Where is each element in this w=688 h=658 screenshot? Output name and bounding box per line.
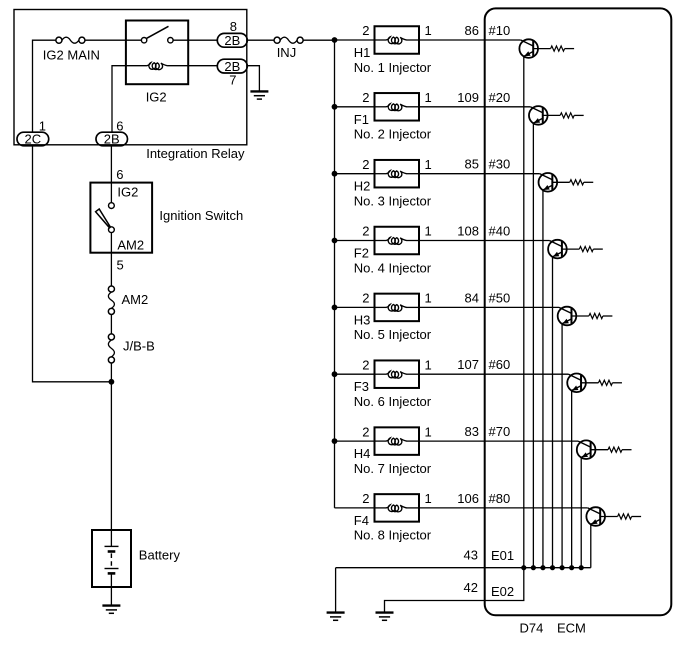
wire E01 to ground [335, 568, 337, 613]
transistor Q2 [529, 106, 548, 125]
resistor (base Q7) [608, 447, 622, 452]
wire through injector H4 [375, 440, 387, 442]
svg-text:108: 108 [457, 224, 479, 239]
svg-text:D74: D74 [520, 621, 544, 636]
svg-text:107: 107 [457, 357, 479, 372]
wire resistor stub Q7 [622, 449, 632, 451]
svg-text:2B: 2B [104, 132, 120, 147]
svg-text:F3: F3 [354, 379, 369, 394]
injector H2 coil [386, 171, 407, 178]
injector H4 box [375, 427, 420, 455]
fuse AM2 [108, 286, 114, 315]
junction E01 emitter 4 [550, 565, 555, 570]
svg-text:109: 109 [457, 90, 479, 105]
svg-text:No. 1 Injector: No. 1 Injector [354, 60, 432, 75]
transistor Q5 [558, 307, 577, 326]
junction bus row 3 [332, 171, 338, 177]
svg-text:No. 4 Injector: No. 4 Injector [354, 260, 432, 275]
svg-text:Integration Relay: Integration Relay [146, 146, 245, 161]
wire bus to injector H3 [335, 306, 375, 308]
svg-text:H1: H1 [354, 45, 371, 60]
svg-text:J/B-B: J/B-B [123, 338, 155, 353]
svg-text:No. 3 Injector: No. 3 Injector [354, 194, 432, 209]
wire resistor stub Q2 [574, 114, 584, 116]
fuse J/B-B [108, 334, 114, 363]
injector H2 box [375, 160, 420, 188]
svg-text:1: 1 [425, 90, 432, 105]
svg-text:42: 42 [464, 580, 478, 595]
svg-text:#20: #20 [489, 90, 511, 105]
resistor (base Q1) [551, 46, 565, 51]
svg-text:8: 8 [230, 19, 237, 34]
svg-text:INJ: INJ [277, 45, 297, 60]
svg-text:1: 1 [425, 291, 432, 306]
svg-text:84: 84 [465, 290, 479, 305]
junction E01 emitter 6 [569, 565, 574, 570]
junction bus row 7 [332, 438, 338, 444]
wire transistor Q3 base to resistor [552, 181, 569, 183]
resistor (base Q2) [560, 113, 574, 118]
injector F4 box [375, 494, 420, 522]
wire fuse AM2 to fuse J/B-B [110, 314, 112, 334]
injector H4 coil [386, 438, 407, 445]
injector F4 coil [386, 505, 407, 512]
svg-text:No. 5 Injector: No. 5 Injector [354, 327, 432, 342]
wire injector H4 coil to pin 1 [406, 440, 419, 442]
junction battery node [109, 379, 115, 385]
wire injector F2 coil to pin 1 [406, 240, 419, 242]
svg-text:1: 1 [425, 491, 432, 506]
wire emitter Q1 to E01 bus [523, 56, 525, 568]
svg-text:H4: H4 [354, 446, 371, 461]
svg-text:1: 1 [425, 357, 432, 372]
svg-text:E02: E02 [491, 584, 514, 599]
resistor (base Q4) [579, 247, 593, 252]
wire fuse to relay contact [85, 39, 142, 41]
svg-text:1: 1 [425, 424, 432, 439]
svg-text:2: 2 [362, 157, 369, 172]
wire injector H3 coil to pin 1 [406, 306, 419, 308]
resistor (base Q5) [589, 313, 603, 318]
ground (battery) [102, 606, 120, 614]
wire 2C to fuse IG2 MAIN [33, 40, 56, 132]
wire emitter Q8 to E01 bus [590, 524, 592, 568]
wire transistor Q5 base to resistor [571, 315, 588, 317]
injector H1 box [375, 26, 420, 54]
wire fuse J/B-B to junction [110, 363, 112, 382]
wire injector H2 coil to pin 1 [406, 173, 419, 175]
svg-text:5: 5 [117, 258, 124, 273]
junction E01 emitter 2 [531, 565, 536, 570]
svg-text:AM2: AM2 [117, 238, 144, 253]
wire emitter Q5 to E01 bus [561, 324, 563, 568]
svg-text:6: 6 [116, 167, 123, 182]
svg-text:1: 1 [425, 157, 432, 172]
wire through injector H1 [375, 39, 387, 41]
connector 2C pin 1 [17, 132, 49, 147]
svg-text:106: 106 [457, 491, 479, 506]
wire coil to connector 2B pin 7 [167, 65, 217, 67]
svg-text:F2: F2 [354, 246, 369, 261]
wire transistor Q1 base to resistor [533, 48, 550, 50]
injector H3 coil [386, 304, 407, 311]
ground (E02) [376, 613, 394, 621]
fuse IG2 MAIN [56, 37, 85, 43]
wire E02 to E01 bus [385, 568, 524, 613]
wire bus to injector H2 [335, 173, 375, 175]
transistor Q8 [586, 507, 605, 526]
integration relay box [14, 10, 247, 145]
wire 2B pin6 down to ignition switch [110, 146, 112, 203]
wire transistor Q4 base to resistor [562, 248, 579, 250]
wire fuse INJ to injector bus [303, 39, 335, 41]
transistor Q1 [519, 39, 538, 58]
fuse INJ [274, 37, 303, 43]
svg-text:2: 2 [362, 224, 369, 239]
injector F2 box [375, 227, 420, 255]
svg-text:Battery: Battery [139, 548, 181, 563]
injector F2 coil [386, 237, 407, 244]
wire 2B pin7 to ground [247, 66, 259, 92]
battery [92, 530, 131, 587]
svg-text:1: 1 [425, 224, 432, 239]
svg-text:H3: H3 [354, 312, 371, 327]
svg-text:No. 8 Injector: No. 8 Injector [354, 528, 432, 543]
wire through injector F1 [375, 106, 387, 108]
svg-text:F4: F4 [354, 513, 369, 528]
wire injector F2 to ECM transistor [419, 240, 549, 242]
svg-text:2C: 2C [25, 132, 42, 147]
wire bus to injector F4 [335, 507, 375, 509]
injector F1 coil [386, 104, 407, 111]
junction E01 emitter 3 [540, 565, 545, 570]
wire injector H1 coil to pin 1 [406, 39, 419, 41]
ground (relay coil) [250, 91, 268, 99]
wire transistor Q2 base to resistor [543, 114, 560, 116]
svg-text:F1: F1 [354, 112, 369, 127]
injector F3 box [375, 360, 420, 388]
junction bus row 1 [332, 37, 338, 43]
connector 2B pin 6 [96, 132, 128, 147]
junction E01 emitter 1 [521, 565, 526, 570]
svg-text:#30: #30 [489, 157, 511, 172]
wire emitter Q2 to E01 bus [532, 123, 534, 568]
wire bus to injector F1 [335, 106, 375, 108]
wire through injector H2 [375, 173, 387, 175]
wire emitter Q4 to E01 bus [552, 257, 554, 568]
wire through injector F2 [375, 240, 387, 242]
wire injector H1 to ECM transistor [419, 39, 521, 41]
wire emitter Q7 to E01 bus [580, 457, 582, 567]
wire injector F3 coil to pin 1 [406, 373, 419, 375]
svg-text:No. 6 Injector: No. 6 Injector [354, 394, 432, 409]
connector 2B pin 8 [217, 33, 247, 48]
transistor Q6 [567, 374, 586, 393]
junction E01 emitter 7 [579, 565, 584, 570]
wire 2C down to battery node [33, 146, 112, 382]
injector H1 coil [386, 37, 407, 44]
relay IG2 switch contact [141, 26, 173, 43]
wire resistor stub Q4 [593, 248, 603, 250]
svg-text:E01: E01 [491, 548, 514, 563]
transistor Q3 [539, 173, 558, 192]
injector supply bus [334, 40, 336, 508]
svg-text:85: 85 [465, 157, 479, 172]
wire bus to injector H4 [335, 440, 375, 442]
connector 2B pin 7 [217, 59, 247, 74]
wire through injector H3 [375, 306, 387, 308]
wire transistor Q7 base to resistor [591, 449, 608, 451]
wire transistor Q8 base to resistor [600, 516, 617, 518]
svg-text:No. 7 Injector: No. 7 Injector [354, 461, 432, 476]
wire bus to injector H1 [335, 39, 375, 41]
svg-text:1: 1 [425, 23, 432, 38]
svg-text:2B: 2B [224, 59, 240, 74]
ignition switch box [90, 183, 152, 253]
svg-text:ECM: ECM [557, 621, 586, 636]
wire injector F4 coil to pin 1 [406, 507, 419, 509]
svg-text:Ignition Switch: Ignition Switch [159, 208, 243, 223]
wire coil to connector 2B pin 6 [112, 66, 147, 133]
resistor (base Q6) [598, 380, 612, 385]
transistor Q4 [548, 240, 567, 259]
svg-text:H2: H2 [354, 179, 371, 194]
wire injector H2 to ECM transistor [419, 173, 540, 175]
relay IG2 box [126, 21, 188, 85]
junction bus row 6 [332, 371, 338, 377]
wire bus to injector F3 [335, 373, 375, 375]
wire injector H3 to ECM transistor [419, 306, 559, 308]
ECM box [485, 8, 672, 615]
svg-text:2: 2 [362, 90, 369, 105]
wire resistor stub Q3 [584, 181, 594, 183]
svg-text:IG2 MAIN: IG2 MAIN [43, 48, 100, 63]
svg-text:#60: #60 [489, 357, 511, 372]
svg-text:2: 2 [362, 491, 369, 506]
wire resistor stub Q5 [603, 315, 613, 317]
wire resistor stub Q8 [632, 516, 642, 518]
svg-text:No. 2 Injector: No. 2 Injector [354, 127, 432, 142]
wire through injector F4 [375, 507, 387, 509]
wire injector F4 to ECM transistor [419, 507, 588, 509]
svg-text:IG2: IG2 [146, 89, 167, 104]
junction E01 emitter 5 [559, 565, 564, 570]
wire contact to connector 2B pin 8 [173, 39, 217, 41]
svg-text:83: 83 [465, 424, 479, 439]
junction bus row 4 [332, 238, 338, 244]
svg-text:#40: #40 [489, 224, 511, 239]
wire injector F3 to ECM transistor [419, 373, 569, 375]
wire through injector F3 [375, 373, 387, 375]
svg-text:#80: #80 [489, 491, 511, 506]
svg-text:IG2: IG2 [117, 185, 138, 200]
E01 bus inside ECM [336, 567, 591, 569]
wire injector F1 coil to pin 1 [406, 106, 419, 108]
injector H3 box [375, 294, 420, 322]
wire injector H4 to ECM transistor [419, 440, 578, 442]
resistor (base Q8) [618, 514, 632, 519]
wire injector F1 to ECM transistor [419, 106, 530, 108]
ignition switch blade [96, 209, 111, 228]
wire bus to injector F2 [335, 240, 375, 242]
wire resistor stub Q1 [565, 48, 575, 50]
svg-text:2: 2 [362, 291, 369, 306]
wire junction to battery [110, 382, 112, 547]
svg-text:2: 2 [362, 357, 369, 372]
svg-text:2: 2 [362, 424, 369, 439]
svg-text:#10: #10 [489, 23, 511, 38]
wire emitter Q3 to E01 bus [542, 190, 544, 568]
ignition switch contacts [109, 203, 115, 233]
svg-text:2: 2 [362, 23, 369, 38]
svg-text:2B: 2B [224, 33, 240, 48]
svg-text:#70: #70 [489, 424, 511, 439]
injector F1 box [375, 93, 420, 121]
transistor Q7 [577, 440, 596, 459]
injector F3 coil [386, 371, 407, 378]
wire emitter Q6 to E01 bus [571, 390, 573, 567]
svg-text:86: 86 [465, 23, 479, 38]
wire ignition switch to fuse AM2 [110, 233, 112, 287]
wire battery to ground [110, 573, 112, 605]
wire transistor Q6 base to resistor [581, 382, 598, 384]
svg-text:AM2: AM2 [122, 292, 149, 307]
relay IG2 coil [147, 63, 168, 70]
svg-text:43: 43 [464, 547, 478, 562]
junction bus row 2 [332, 104, 338, 110]
ground (E01) [327, 613, 345, 621]
junction bus row 5 [332, 305, 338, 311]
svg-text:#50: #50 [489, 290, 511, 305]
wire resistor stub Q6 [612, 382, 622, 384]
wire 2B pin8 to fuse INJ [247, 39, 274, 41]
svg-text:7: 7 [229, 72, 236, 87]
resistor (base Q3) [570, 180, 584, 185]
